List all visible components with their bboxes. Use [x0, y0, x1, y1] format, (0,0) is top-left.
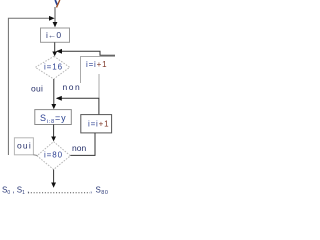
arrowhead down into diamond 2 — [51, 137, 56, 142]
wire left loop (from oui branch back to top) — [8, 18, 52, 155]
svg-text:i=16: i=16 — [44, 63, 63, 72]
arrowhead into box i=0 — [53, 22, 58, 27]
svg-text:i=80: i=80 — [44, 151, 63, 160]
arrowhead down into box S — [51, 104, 56, 109]
wire oui frame to diamond 2 — [33, 154, 37, 157]
start connector stub (clipped glyph) — [55, 0, 60, 7]
arrowhead left at junction B — [56, 96, 62, 101]
dotted leader — [28, 192, 90, 194]
process box S — [35, 110, 72, 125]
arrowhead left at junction A — [56, 49, 62, 54]
process box i=0 — [41, 28, 70, 42]
svg-text:i=i+1: i=i+1 — [88, 120, 109, 129]
wire box S down to diamond 2 — [53, 125, 55, 138]
svg-text:i←0: i←0 — [46, 30, 61, 40]
svg-text:i=i+1: i=i+1 — [86, 60, 107, 69]
oui label frame (diamond 2) — [14, 138, 33, 155]
wire non branch to box i=i+1 bottom — [70, 133, 95, 155]
arrowhead down to result row — [51, 183, 56, 188]
wire diamond 2 bottom output — [53, 170, 55, 184]
wire from i=i+1 down (gray) — [98, 74, 100, 98]
svg-text:non: non — [72, 143, 86, 153]
svg-text:oui: oui — [31, 84, 43, 94]
wire box i=0 down to junction A — [54, 42, 56, 52]
feedback wire into junction A — [57, 51, 115, 55]
svg-text:oui: oui — [17, 141, 32, 151]
wire start to box i=0 — [54, 7, 56, 23]
wire diamond 1 down to box S — [53, 79, 55, 105]
diamond 2 test i=80 — [37, 142, 70, 170]
feedback wire into junction B — [57, 98, 99, 114]
diamond 1 test i=16 — [35, 56, 69, 79]
process box i=i+1 (second) — [81, 115, 112, 133]
svg-text:S0 , S1 ,: S0 , S1 , — [2, 186, 29, 197]
svg-text:non: non — [63, 82, 82, 92]
ghost box top-left of i=i+1 (clipped) — [81, 57, 116, 84]
arrowhead right into top junction — [49, 16, 55, 21]
arrowhead down into diamond 1 — [52, 52, 57, 57]
